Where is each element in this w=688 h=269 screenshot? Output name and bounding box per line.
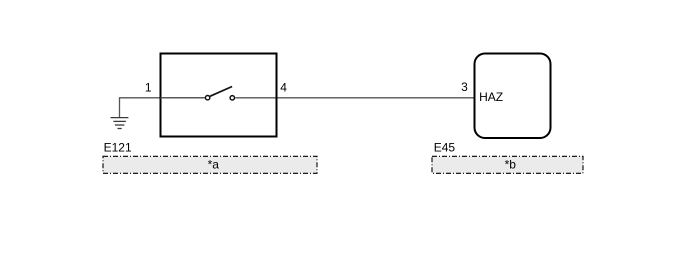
svg-text:*a: *a	[208, 158, 220, 172]
switch lever	[210, 87, 232, 97]
wire: ground to switch box pin 1	[120, 98, 205, 118]
svg-text:4: 4	[280, 80, 287, 94]
switch box (hazard switch)	[161, 54, 277, 137]
connector bar *b	[432, 156, 583, 173]
switch contact circle left	[205, 96, 209, 100]
svg-text:E121: E121	[104, 140, 132, 154]
svg-text:*b: *b	[505, 158, 517, 172]
svg-text:E45: E45	[434, 141, 456, 155]
wire inside switch box	[161, 97, 205, 99]
svg-text:HAZ: HAZ	[479, 90, 503, 104]
connector bar *a	[103, 156, 317, 173]
svg-text:1: 1	[145, 80, 152, 94]
ground E121	[111, 118, 129, 129]
switch contact circle right	[230, 96, 234, 100]
HAZ relay box U-HAZ	[475, 54, 551, 139]
svg-text:3: 3	[461, 80, 468, 94]
wire: switch to HAZ pin 3	[235, 97, 473, 99]
